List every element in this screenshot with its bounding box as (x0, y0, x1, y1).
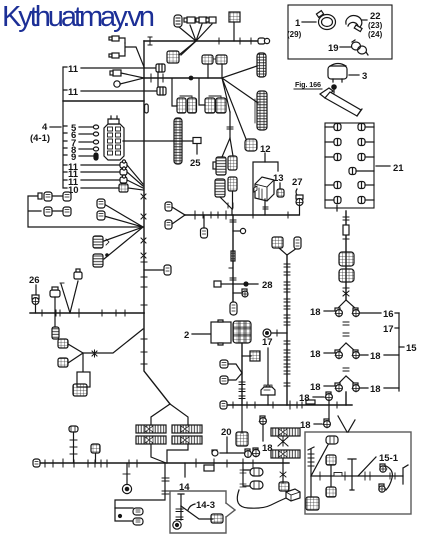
sleeve on trunk (231, 251, 235, 261)
label 10 (68, 185, 119, 196)
capsule end bus463 (33, 459, 40, 467)
svg-text:18: 18 (370, 351, 381, 362)
inner diagonal (311, 443, 329, 476)
inner T post (348, 459, 356, 490)
label 4 (4-1) (30, 122, 61, 144)
svg-text:18: 18 (300, 420, 311, 431)
junction dot (189, 76, 193, 80)
label 18 mid (262, 443, 273, 454)
svg-text:11: 11 (68, 64, 79, 75)
fuse link on trunk346 (343, 225, 349, 235)
fan at trunk 227 (104, 204, 143, 259)
bolt under 28 (233, 289, 248, 297)
inner grid bottom 331 (326, 487, 336, 497)
bank 14 row1 right (172, 425, 202, 433)
tick (229, 266, 233, 271)
plug 11b (157, 87, 166, 95)
bulb 11c (120, 160, 127, 168)
star tick (92, 350, 97, 357)
svg-text:26: 26 (29, 275, 40, 286)
tick (162, 74, 164, 82)
svg-text:17: 17 (383, 324, 394, 335)
ticks bus313 (42, 309, 125, 317)
rect under bus (204, 465, 214, 471)
label 13 (273, 173, 284, 189)
svg-text:28: 28 (262, 280, 273, 291)
pointer to box (338, 416, 355, 432)
inner bolt upper right (380, 464, 387, 472)
bolt 26 (32, 285, 39, 313)
capsule loop b (63, 192, 71, 201)
svg-text:2: 2 (184, 330, 189, 341)
svg-text:18: 18 (310, 382, 321, 393)
branch to small grid (242, 351, 260, 361)
tick (150, 74, 152, 82)
svg-text:17: 17 (262, 337, 273, 348)
ticks (343, 368, 349, 371)
terminal lollipop (258, 38, 270, 44)
svg-text:27: 27 (292, 177, 303, 188)
ring branch 231 (233, 228, 246, 233)
x tick (343, 291, 349, 296)
svg-text:1: 1 (295, 18, 301, 29)
grid pair mid (202, 55, 227, 64)
capsule Y left (165, 202, 185, 215)
pin on loop (38, 193, 42, 199)
relay 3 (328, 64, 347, 83)
bolt 18 R2 (352, 350, 359, 359)
capsule h1 (133, 508, 143, 515)
cluster junction 83 (68, 329, 143, 372)
label 19 (328, 43, 351, 54)
V wires (61, 281, 78, 313)
stadium connectors (240, 463, 250, 487)
capsule pair to junction (220, 360, 242, 373)
svg-text:18: 18 (370, 384, 381, 395)
label 18 Y3 (310, 382, 334, 393)
label 11 b (68, 87, 79, 98)
box21 pin R4 (358, 182, 374, 189)
wire 11b (81, 90, 157, 92)
label 17 (262, 337, 273, 348)
trunk346 to bus (345, 392, 347, 405)
label 14 (179, 463, 190, 493)
connector 346a (339, 252, 354, 266)
bank feeds (151, 404, 188, 463)
connector D (228, 177, 237, 191)
label 18 Y2r (360, 351, 399, 362)
Y split to AB (222, 138, 233, 157)
clamp 19 (352, 40, 369, 55)
wire 17 (267, 348, 269, 385)
trunk x287 (286, 255, 288, 405)
connector 17 (261, 385, 275, 405)
trunk bump (145, 104, 149, 113)
connector box 21 (325, 123, 374, 208)
capsule loop d (63, 207, 71, 216)
bulb 11e (120, 175, 127, 183)
box21 pin L1 (325, 124, 341, 131)
relay pair right (205, 96, 226, 113)
node 28 dot (233, 282, 258, 286)
label 7 (71, 138, 93, 149)
bank 14 row2 left (136, 436, 166, 444)
box21 pin L2 (325, 139, 341, 146)
ticks trunk287 (284, 264, 290, 386)
box21 pin R1 (358, 124, 374, 131)
tick (343, 287, 349, 289)
bolt 18 below bus (323, 419, 330, 428)
bus y78 (144, 77, 222, 79)
plug pair top left (109, 36, 125, 58)
label 18 below (300, 420, 322, 431)
svg-text:16: 16 (383, 309, 394, 320)
label 22 (23) (24) (362, 11, 383, 39)
trunk diagonal to banks (144, 313, 170, 404)
bus y215 (185, 214, 299, 216)
plug cluster at bus start (110, 70, 144, 78)
capsule end bus405 (220, 401, 227, 409)
Y top 287 (279, 248, 297, 255)
tick (343, 217, 349, 220)
label 16 (360, 309, 399, 320)
trunk x346 (345, 211, 347, 300)
relay below (73, 372, 90, 396)
svg-text:(29): (29) (287, 30, 302, 39)
bolt 18 on bus (325, 392, 332, 421)
wires CD to bus (220, 191, 233, 215)
connector 346b (339, 269, 354, 282)
bus y405 (226, 404, 352, 406)
relay box 2 (211, 320, 231, 345)
bolt on bracket 3 (332, 85, 336, 93)
bank 14 row1 left (136, 425, 166, 433)
x ticks trunk (141, 194, 146, 258)
pin rect above bus (306, 400, 315, 404)
tick (228, 203, 233, 208)
Y3 (338, 376, 355, 384)
plug 11a (156, 64, 165, 72)
label 3 (349, 71, 367, 82)
grid box mid (167, 41, 196, 63)
label 27 (292, 177, 303, 188)
box 14-3 (170, 491, 226, 533)
svg-text:19: 19 (328, 43, 339, 54)
label 15 (399, 343, 417, 354)
tick (240, 38, 251, 44)
wire bracket to trunk (63, 100, 144, 102)
curve wire to 3d plug (237, 490, 286, 508)
clamp 22 (346, 16, 362, 32)
plug capsule top (174, 15, 182, 27)
label 14-3 (188, 500, 215, 511)
inner left post (308, 447, 314, 497)
connector Y left (272, 237, 283, 248)
hatch box fan c (93, 236, 109, 248)
wire 20 bolts (212, 450, 245, 456)
connector 20 (236, 405, 248, 446)
label 12 (260, 144, 271, 162)
grid box cl a (58, 339, 68, 348)
tick (263, 207, 268, 209)
drop to capsule (201, 215, 208, 238)
ticks x346 (343, 322, 349, 336)
label 15-1 (358, 453, 399, 476)
svg-text:(24): (24) (368, 30, 383, 39)
wire 11a (81, 67, 156, 69)
box21 bottom tick (336, 205, 338, 211)
svg-text:14-3: 14-3 (196, 500, 215, 511)
drop fan bottom (115, 463, 169, 521)
plug top d (206, 17, 216, 23)
wires 11/10 to trunk (127, 165, 143, 190)
bracket 12 (253, 162, 278, 215)
bolt 18 L1 (335, 308, 342, 317)
box21 pin R5 (358, 197, 374, 204)
ticks trunk (141, 262, 147, 305)
box21 pin M (349, 168, 374, 175)
Y1 (338, 300, 355, 308)
svg-text:Kythuatmay.vn: Kythuatmay.vn (2, 1, 155, 33)
strip connector A (257, 53, 266, 77)
callout notch 14-3 (226, 503, 235, 517)
label 11 a (68, 64, 79, 75)
bolt 18 L3 (335, 383, 342, 392)
label Fig. 166 (294, 80, 322, 89)
label 2 (184, 330, 211, 341)
tick (218, 38, 220, 44)
svg-text:(23): (23) (368, 21, 383, 30)
relay 13 (254, 177, 274, 201)
inner bolt lower right (379, 484, 386, 492)
pin 28 wire (214, 281, 233, 287)
label 17 r (383, 324, 399, 335)
terminal 9 (94, 153, 98, 160)
label 6 (71, 130, 93, 141)
box21 pin L3 (325, 154, 341, 161)
inner right T (403, 465, 408, 484)
label 21 (376, 163, 404, 174)
bolt 27 (296, 189, 303, 215)
svg-text:20: 20 (221, 427, 232, 438)
label 1 (29) (287, 18, 316, 39)
label 11 e (68, 177, 120, 188)
inner curve right (386, 466, 392, 490)
svg-text:15-1: 15-1 (379, 453, 399, 464)
label 18 bus (299, 393, 324, 404)
label 5 (71, 123, 93, 134)
label 9 (71, 152, 93, 163)
bus y463 (38, 462, 289, 464)
label 18 Y1 (310, 307, 334, 318)
bolt 18 R3 (352, 383, 359, 392)
plug V (74, 269, 82, 279)
label 18 Y2 (310, 349, 334, 360)
striped connector below (52, 327, 59, 339)
label 8 (71, 145, 93, 156)
ring terminal drop (122, 463, 131, 494)
bowtie between bars (278, 437, 288, 446)
link plugs 11 (157, 72, 159, 87)
parts box frame (288, 5, 392, 59)
svg-text:18: 18 (310, 307, 321, 318)
capsule loop c (44, 207, 52, 216)
inner ticks (320, 472, 395, 480)
drop grid bottom (279, 459, 289, 491)
tick (343, 238, 349, 240)
fan junction top (179, 24, 212, 55)
label 11 c (68, 162, 120, 173)
strip connector B (255, 91, 267, 130)
ticks trunk242 (239, 382, 245, 399)
inner ring 14-3 (173, 506, 181, 529)
ticks (141, 339, 147, 364)
branch ring 287 (263, 329, 287, 337)
fan junction 222 (222, 66, 258, 139)
svg-text:3: 3 (362, 71, 367, 82)
pair drops (172, 79, 205, 106)
cap plug feed (69, 426, 78, 463)
svg-text:21: 21 (393, 163, 404, 174)
bolt 18 R1 (352, 308, 359, 317)
terminal 5 (93, 125, 98, 129)
capsule fan b (97, 211, 105, 220)
connector 12 (245, 139, 257, 151)
bracket 4 (63, 67, 67, 188)
inner grid 14-3 (211, 514, 223, 523)
plug drop 295 (50, 287, 60, 327)
tick (230, 278, 236, 280)
trunk x242 (241, 343, 243, 405)
connector 25 strip (174, 118, 182, 164)
capsule fan a (97, 199, 105, 208)
connector C (215, 179, 225, 197)
box21 pin L4 (325, 182, 341, 189)
fuses (108, 127, 121, 155)
capsule h2 (133, 518, 143, 525)
svg-text:15: 15 (406, 343, 417, 354)
bolt pair 20 (245, 448, 260, 457)
grid box cl b (58, 358, 68, 367)
Y2 (338, 343, 355, 351)
relay pair left (177, 96, 197, 113)
connector A (213, 157, 226, 175)
fuse box 4 (104, 116, 124, 160)
ticks bus215 (195, 211, 288, 219)
bus y313 (30, 312, 144, 314)
box21 pin L5 (325, 197, 341, 204)
label 26 (29, 275, 40, 286)
bars right (271, 428, 300, 436)
inner post 14-3 (176, 494, 213, 520)
connector 2 (233, 321, 251, 343)
svg-text:11: 11 (68, 87, 79, 98)
tick (230, 220, 236, 222)
inner bus (311, 475, 403, 477)
svg-text:Fig. 166: Fig. 166 (295, 80, 321, 89)
svg-text:18: 18 (310, 349, 321, 360)
svg-text:(4-1): (4-1) (30, 133, 50, 144)
ticks bus405 (233, 401, 337, 409)
box21 pin R3 (358, 154, 374, 161)
trunk x144 (143, 41, 145, 313)
trunk x233 (232, 215, 234, 302)
connector B (228, 156, 237, 170)
capsule loop a (44, 192, 52, 201)
plug top b (184, 17, 195, 23)
relay 13 leg (264, 199, 266, 215)
label 28 (262, 280, 273, 291)
wire Y stem (229, 112, 231, 138)
capsule Y right (294, 237, 301, 249)
ticks bus463 (45, 459, 253, 467)
box 15-1 (305, 432, 411, 514)
bracket 15 (398, 313, 400, 391)
fuse line to pin 25 (123, 140, 193, 142)
inner post 331 (326, 455, 336, 487)
tick wire (60, 282, 64, 284)
branch capsule 270 (144, 265, 171, 275)
svg-text:18: 18 (299, 393, 310, 404)
terminal 8 (93, 147, 98, 151)
tick (148, 37, 152, 45)
drops to bus (208, 64, 222, 78)
3d plug (286, 489, 300, 501)
bank 14 row2 right (172, 436, 202, 444)
label 18 Y3r (360, 384, 399, 395)
pin 25 (193, 138, 201, 155)
capsule end trunk233 (230, 302, 237, 315)
inner capsule top (326, 436, 338, 444)
clamp 1 (316, 11, 335, 30)
bolt 18 L2 (335, 350, 342, 359)
plug top c (196, 17, 207, 23)
wires plug pair to trunk (125, 43, 144, 67)
svg-text:4: 4 (42, 122, 48, 133)
top bus y41 (144, 40, 261, 42)
tick (227, 127, 233, 129)
terminal 6 (93, 132, 98, 136)
hatch box fan d (93, 254, 108, 267)
bolt 18 right mid (259, 416, 266, 441)
label 20 (221, 427, 232, 453)
pin 13 (277, 189, 284, 197)
terminal 7 (93, 140, 98, 144)
connector grid top (229, 12, 240, 41)
svg-text:25: 25 (190, 158, 201, 169)
grid plug feed (91, 444, 100, 463)
inner grid plug bottom left (306, 497, 319, 510)
left loop wires (28, 196, 143, 227)
label 25 (190, 158, 201, 169)
bulb 11d (120, 167, 127, 175)
bracket arm 3 (320, 88, 362, 116)
label 11 d (68, 169, 120, 180)
connector 10 (119, 184, 128, 192)
box21 pin R2 (358, 139, 374, 146)
